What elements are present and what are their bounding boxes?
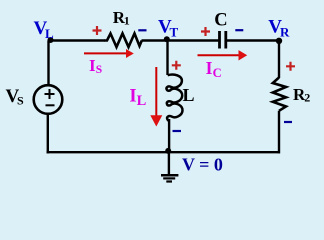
svg-text:R: R: [280, 24, 290, 39]
svg-text:I: I: [129, 86, 136, 106]
svg-text:S: S: [17, 94, 24, 108]
svg-text:C: C: [214, 11, 227, 31]
svg-text:L: L: [137, 93, 147, 109]
svg-text:I: I: [206, 58, 213, 78]
svg-text:V = 0: V = 0: [182, 155, 223, 175]
svg-text:L: L: [45, 26, 54, 41]
svg-text:C: C: [213, 66, 222, 80]
svg-text:2: 2: [304, 91, 310, 105]
svg-text:L: L: [183, 85, 195, 105]
svg-text:1: 1: [124, 13, 130, 27]
svg-text:S: S: [96, 64, 102, 76]
svg-text:T: T: [170, 24, 179, 39]
